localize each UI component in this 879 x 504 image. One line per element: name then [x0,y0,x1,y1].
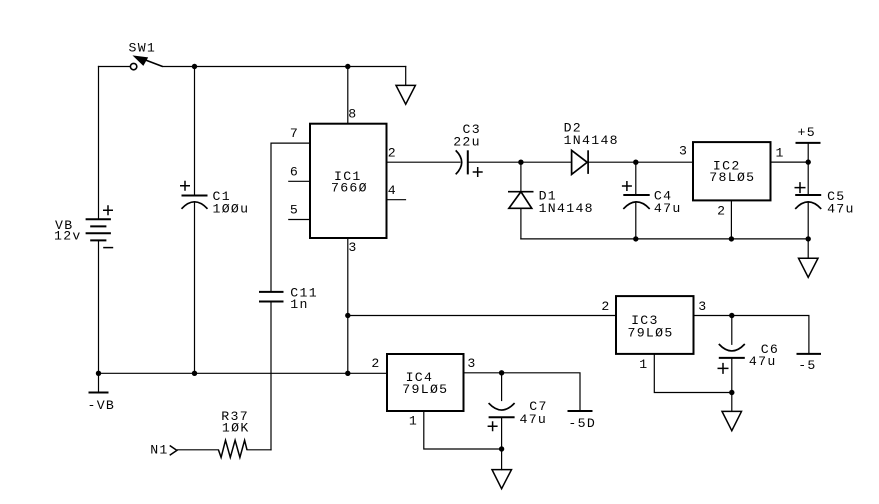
svg-text:-VB: -VB [88,398,116,413]
svg-text:2: 2 [388,145,397,160]
svg-text:1: 1 [776,145,785,160]
svg-text:N1: N1 [150,443,168,458]
svg-text:3: 3 [348,240,357,255]
svg-text:1ØK: 1ØK [222,420,250,435]
svg-text:1ØØu: 1ØØu [213,202,250,217]
svg-text:SW1: SW1 [129,41,157,56]
svg-text:1N4148: 1N4148 [564,133,619,148]
svg-text:2: 2 [371,356,380,371]
svg-text:4: 4 [388,183,397,198]
svg-text:47u: 47u [749,354,777,369]
svg-text:22u: 22u [453,135,481,150]
svg-text:1n: 1n [290,297,308,312]
svg-text:8: 8 [348,106,357,121]
svg-text:79LØ5: 79LØ5 [628,325,674,340]
svg-text:47u: 47u [827,201,855,216]
svg-text:5: 5 [290,203,299,218]
svg-text:78LØ5: 78LØ5 [709,170,755,185]
svg-text:2: 2 [601,299,610,314]
svg-text:6: 6 [290,164,299,179]
svg-text:2: 2 [717,204,726,219]
svg-text:79LØ5: 79LØ5 [402,382,448,397]
svg-text:47u: 47u [520,412,548,427]
svg-text:-5D: -5D [568,416,596,431]
svg-text:+5: +5 [798,125,816,140]
svg-text:12v: 12v [54,228,82,243]
svg-text:1: 1 [639,357,648,372]
svg-text:7: 7 [290,126,299,141]
svg-text:1N4148: 1N4148 [539,201,594,216]
svg-text:3: 3 [698,299,707,314]
svg-text:3: 3 [679,144,688,159]
svg-text:766Ø: 766Ø [331,181,368,196]
svg-text:47u: 47u [654,201,682,216]
svg-text:1: 1 [409,413,418,428]
svg-text:-5: -5 [798,358,816,373]
svg-text:3: 3 [467,356,476,371]
